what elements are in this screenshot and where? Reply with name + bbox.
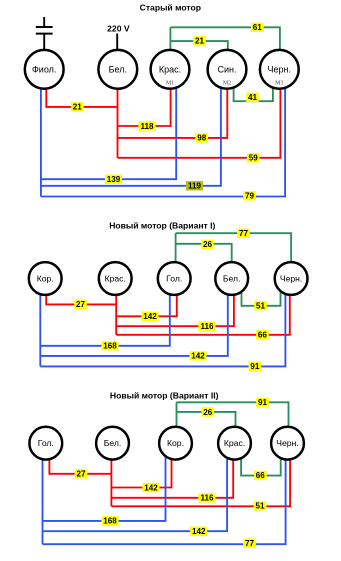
svg-text:91: 91 [258,398,268,407]
svg-text:118: 118 [140,122,154,131]
svg-text:66: 66 [256,471,266,480]
svg-text:Черн.: Черн. [276,438,298,448]
svg-text:77: 77 [239,229,249,238]
svg-text:Бел.: Бел. [223,274,241,284]
svg-text:Кор.: Кор. [37,274,54,284]
svg-text:21: 21 [195,37,205,46]
svg-text:Син.: Син. [218,64,237,74]
svg-text:98: 98 [197,134,207,143]
svg-text:59: 59 [249,154,259,163]
svg-text:142: 142 [191,352,205,361]
svg-text:Черн.: Черн. [280,274,302,284]
svg-text:Бел.: Бел. [104,438,122,448]
svg-text:Фиол.: Фиол. [32,64,56,74]
svg-text:Крас.: Крас. [159,64,181,74]
svg-text:Крас.: Крас. [105,274,126,284]
svg-text:116: 116 [200,322,214,331]
svg-text:26: 26 [203,240,213,249]
svg-text:77: 77 [245,539,255,548]
svg-text:27: 27 [76,300,86,309]
svg-text:220 V: 220 V [107,24,130,34]
svg-text:142: 142 [144,483,158,492]
svg-text:168: 168 [103,517,117,526]
svg-text:Новый мотор (Вариант I): Новый мотор (Вариант I) [109,220,215,230]
svg-text:M3: M3 [275,81,283,87]
svg-text:79: 79 [245,192,255,201]
svg-text:21: 21 [73,103,83,112]
svg-text:M1: M1 [166,81,174,87]
svg-text:142: 142 [143,312,157,321]
svg-text:Черн.: Черн. [268,64,291,74]
svg-text:119: 119 [188,182,202,191]
svg-text:139: 139 [107,175,121,184]
svg-text:51: 51 [256,301,266,310]
svg-text:66: 66 [258,331,268,340]
svg-text:Гол.: Гол. [166,274,182,284]
svg-text:116: 116 [200,494,214,503]
svg-text:M2: M2 [223,81,231,87]
svg-text:Гол.: Гол. [38,438,54,448]
svg-text:Крас.: Крас. [224,438,245,448]
svg-text:168: 168 [103,342,117,351]
svg-text:26: 26 [203,408,213,417]
svg-text:27: 27 [76,470,86,479]
svg-text:Новый мотор (Вариант II): Новый мотор (Вариант II) [110,390,219,400]
svg-text:51: 51 [255,502,265,511]
svg-text:142: 142 [192,527,206,536]
svg-text:Старый мотор: Старый мотор [140,3,201,13]
svg-text:Кор.: Кор. [167,438,184,448]
svg-text:Бел.: Бел. [109,64,127,74]
svg-text:91: 91 [250,362,260,371]
svg-text:41: 41 [248,93,258,102]
svg-text:61: 61 [253,23,263,32]
